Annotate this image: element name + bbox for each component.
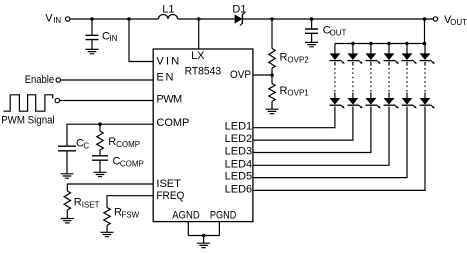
node ROVP2 tap bbox=[270, 17, 274, 21]
wire down to ROVP2 bbox=[271, 19, 273, 49]
resistor ROVP2 bbox=[269, 49, 275, 69]
capacitor CCOMP bbox=[92, 156, 108, 160]
wire bbox=[352, 62, 354, 66]
ground CCOMP ground bbox=[94, 172, 107, 176]
ground system ground bbox=[197, 243, 210, 247]
wire bbox=[424, 93, 426, 98]
wire COMP pin to network bbox=[67, 124, 153, 146]
LED string 6 bottom bbox=[420, 98, 431, 105]
svg-text:LED1: LED1 bbox=[225, 121, 253, 133]
svg-text:OUT: OUT bbox=[330, 28, 347, 37]
LED string 3 bottom bbox=[366, 98, 377, 105]
svg-text:R: R bbox=[108, 136, 116, 148]
svg-text:RT8543: RT8543 bbox=[185, 66, 222, 78]
node Enable terminal bbox=[56, 78, 60, 82]
svg-text:EN: EN bbox=[156, 72, 173, 84]
wire PWM to PWM pin bbox=[60, 100, 154, 102]
resistor ROVP1 bbox=[269, 84, 275, 102]
dotted wire (string 6 continuation) bbox=[424, 68, 426, 92]
wire LED string 5 cathode to LED5 pin bbox=[253, 107, 407, 178]
wire to VIN pin bbox=[129, 19, 153, 62]
wire rail to LED string 5 bbox=[406, 44, 408, 54]
node LED rail junction 2 bbox=[351, 42, 355, 46]
wire down to CIN bbox=[91, 19, 93, 35]
capacitor COUT bbox=[305, 29, 318, 33]
wire ROVP2 to junction bbox=[271, 68, 273, 83]
ground RISET ground bbox=[61, 219, 74, 223]
wire bbox=[388, 62, 390, 66]
svg-text:LED5: LED5 bbox=[225, 171, 253, 183]
wire D1 to VOUT terminal bbox=[242, 18, 433, 20]
diode D1 (Schottky) bbox=[235, 14, 243, 23]
wire bbox=[334, 93, 336, 98]
wire rail to LED string 3 bbox=[370, 44, 372, 54]
svg-text:LED2: LED2 bbox=[225, 133, 253, 145]
node COUT tap bbox=[310, 17, 314, 21]
wire Enable to EN pin bbox=[61, 79, 154, 81]
svg-text:Enable: Enable bbox=[25, 74, 55, 86]
wire FREQ pin to RFSW bbox=[107, 196, 153, 208]
wire LX to IC bbox=[198, 19, 200, 49]
svg-text:LED6: LED6 bbox=[225, 183, 253, 195]
wire bbox=[424, 62, 426, 66]
svg-text:COMP: COMP bbox=[156, 117, 189, 129]
wire to system ground bbox=[203, 236, 205, 244]
svg-text:ISET: ISET bbox=[156, 178, 181, 190]
wire LED string 2 cathode to LED2 pin bbox=[253, 107, 353, 141]
svg-text:V: V bbox=[45, 12, 53, 24]
wire bbox=[406, 93, 408, 98]
svg-text:FSW: FSW bbox=[121, 210, 139, 219]
wire ISET pin to RISET bbox=[67, 184, 153, 191]
svg-text:R: R bbox=[280, 85, 288, 97]
PWM square-wave symbol bbox=[3, 95, 52, 111]
svg-text:VIN: VIN bbox=[156, 56, 179, 68]
svg-text:PWM: PWM bbox=[156, 94, 182, 106]
node LED rail junction 5 bbox=[405, 42, 409, 46]
wire rail to LED string 2 bbox=[352, 44, 354, 54]
resistor RCOMP bbox=[97, 131, 103, 150]
wire RISET to ground bbox=[66, 210, 68, 218]
wire bbox=[370, 93, 372, 98]
svg-text:IN: IN bbox=[53, 16, 61, 25]
LED string 4 top bbox=[384, 53, 395, 60]
wire bbox=[388, 93, 390, 98]
ground RFSW ground bbox=[101, 232, 114, 236]
node LED rail junction 6 bbox=[423, 42, 427, 46]
svg-text:R: R bbox=[74, 197, 82, 209]
wire AGND-PGND join bbox=[188, 235, 219, 237]
LED string 4 bottom bbox=[384, 98, 395, 105]
LED string 2 top bbox=[348, 53, 359, 60]
svg-text:AGND: AGND bbox=[172, 210, 200, 222]
LED string 1 top bbox=[330, 53, 341, 60]
svg-text:FREQ: FREQ bbox=[156, 190, 184, 202]
ground ROVP1 ground bbox=[266, 109, 279, 113]
wire COUT to ground bbox=[311, 33, 313, 42]
wire bbox=[406, 62, 408, 66]
wire rail to LED string 1 bbox=[334, 44, 336, 54]
svg-text:LED3: LED3 bbox=[225, 146, 253, 158]
wire LED string 6 cathode to LED6 pin bbox=[253, 107, 425, 191]
svg-text:COMP: COMP bbox=[116, 140, 140, 149]
wire rail to LED string 6 bbox=[424, 44, 426, 54]
wire L1 to D1 bbox=[178, 18, 235, 20]
node OVP junction bbox=[270, 73, 274, 77]
node PWM terminal bbox=[55, 98, 59, 102]
svg-text:PWM Signal: PWM Signal bbox=[1, 114, 55, 126]
dotted wire (string 1 continuation) bbox=[334, 68, 336, 92]
LED string 5 bottom bbox=[402, 98, 413, 105]
wire LED string 3 cathode to LED3 pin bbox=[253, 107, 371, 153]
dotted wire (string 2 continuation) bbox=[352, 68, 354, 92]
wire OVP pin to divider bbox=[253, 74, 272, 76]
svg-text:L1: L1 bbox=[162, 3, 174, 15]
node VIN terminal bbox=[66, 17, 70, 21]
ground CC ground bbox=[61, 174, 74, 178]
wire bbox=[352, 93, 354, 98]
svg-text:R: R bbox=[280, 52, 288, 64]
svg-text:ISET: ISET bbox=[82, 200, 100, 209]
wire RCOMP to CCOMP bbox=[99, 150, 101, 156]
svg-text:OVP1: OVP1 bbox=[287, 89, 309, 98]
svg-text:OVP2: OVP2 bbox=[287, 56, 309, 65]
svg-text:OUT: OUT bbox=[450, 18, 467, 27]
LED string 2 bottom bbox=[348, 98, 359, 105]
wire RFSW to ground bbox=[106, 225, 108, 232]
node COMP junction bbox=[98, 122, 102, 126]
svg-text:PGND: PGND bbox=[210, 210, 237, 222]
node GND junction bbox=[202, 234, 206, 238]
LED string 1 bottom bbox=[330, 98, 341, 105]
wire AGND pin down bbox=[187, 222, 189, 236]
node CIN tap bbox=[90, 17, 94, 21]
wire PGND pin down bbox=[218, 222, 220, 236]
wire LED string 4 cathode to LED4 pin bbox=[253, 107, 389, 166]
capacitor CC bbox=[58, 146, 76, 151]
svg-text:LX: LX bbox=[191, 50, 205, 62]
ground CIN ground bbox=[86, 49, 99, 53]
dotted wire (string 3 continuation) bbox=[370, 68, 372, 92]
wire rail to LED string 4 bbox=[388, 44, 390, 54]
wire CCOMP to ground bbox=[99, 160, 101, 172]
svg-text:COMP: COMP bbox=[120, 160, 144, 169]
svg-text:OVP: OVP bbox=[230, 69, 251, 81]
svg-text:LED4: LED4 bbox=[225, 158, 253, 170]
wire LED anode rail bbox=[335, 43, 425, 45]
wire COMP junction down bbox=[99, 124, 101, 131]
wire ROVP1 to ground bbox=[271, 101, 273, 109]
node LED rail junction 3 bbox=[369, 42, 373, 46]
node LED rail junction 4 bbox=[387, 42, 391, 46]
dotted wire (string 4 continuation) bbox=[388, 68, 390, 92]
op-amp U1 RT8543 IC body bbox=[153, 49, 253, 222]
resistor RISET bbox=[64, 191, 70, 210]
resistor RFSW bbox=[104, 208, 110, 226]
ground COUT ground bbox=[305, 42, 318, 46]
wire LED string 1 cathode to LED1 pin bbox=[253, 107, 335, 128]
node VIN drop bbox=[127, 17, 131, 21]
wire down to COUT bbox=[311, 19, 313, 29]
capacitor C1 CIN bbox=[86, 35, 99, 39]
inductor L1 bbox=[158, 14, 177, 19]
wire bbox=[370, 62, 372, 66]
wire VOUT down to LED rail bbox=[424, 19, 426, 44]
node LX junction bbox=[197, 17, 201, 21]
LED string 6 top bbox=[420, 53, 431, 60]
node VOUT drop bbox=[423, 17, 427, 21]
node VOUT terminal bbox=[433, 17, 437, 21]
svg-text:C: C bbox=[83, 141, 89, 150]
wire CC to ground bbox=[66, 151, 68, 174]
svg-text:IN: IN bbox=[109, 34, 117, 43]
wire VIN rail to L1 bbox=[70, 18, 158, 20]
LED string 5 top bbox=[402, 53, 413, 60]
wire CIN to ground bbox=[91, 40, 93, 50]
svg-text:D1: D1 bbox=[232, 3, 246, 15]
dotted wire (string 5 continuation) bbox=[406, 68, 408, 92]
wire bbox=[334, 62, 336, 66]
LED string 3 top bbox=[366, 53, 377, 60]
